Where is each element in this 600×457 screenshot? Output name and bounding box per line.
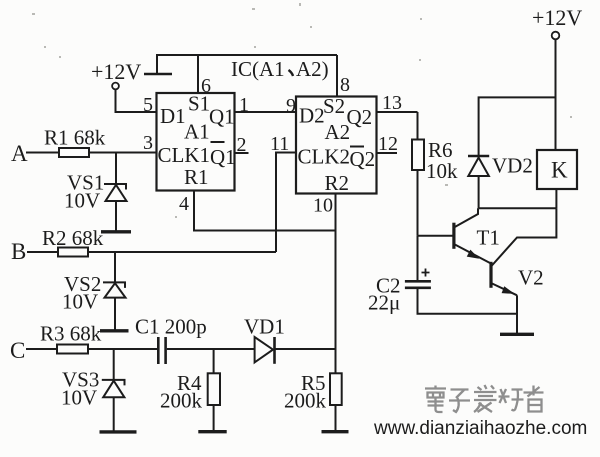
wire VD1 to R5/pin10 node: [276, 348, 336, 350]
+12V supply terminal (right): [532, 5, 582, 150]
input B: [11, 239, 58, 264]
wire A2 Q2 pin13 to R6: [377, 92, 418, 114]
svg-text:10: 10: [313, 195, 333, 217]
node wire VD2/T1 collector/K bottom: [479, 207, 557, 209]
svg-text:8: 8: [340, 74, 350, 96]
wire B node to A2 pin 11 (CLK2): [270, 133, 296, 252]
svg-text:5: 5: [143, 94, 153, 116]
zener diode VS3 10V: [61, 349, 125, 432]
svg-text:10V: 10V: [61, 386, 97, 410]
svg-text:A2: A2: [325, 120, 351, 144]
svg-text:R1: R1: [184, 165, 209, 189]
zener diode VS2 10V: [62, 252, 126, 331]
wire +12V to VD2 cathode: [479, 97, 556, 156]
svg-text:12: 12: [378, 133, 398, 155]
IC label IC(A1,A2): [231, 57, 329, 81]
svg-text:2: 2: [237, 134, 247, 156]
input A: [11, 141, 59, 166]
svg-text:200k: 200k: [284, 389, 327, 413]
A2 pin 8 (S2) wire: [337, 55, 350, 97]
wire C1 to VD1: [167, 348, 255, 350]
wire A1 pin 4 (R1) to A2 pin 10 node: [179, 191, 336, 231]
wire A1 Q1 pin1 to A2 D2 pin9: [235, 94, 297, 117]
svg-text:9: 9: [286, 95, 296, 117]
svg-text:A1: A1: [184, 120, 210, 144]
svg-text:A2): A2): [296, 57, 329, 81]
wire +12V terminal to A1 pin 5 (D1): [116, 90, 157, 113]
svg-text:C: C: [10, 338, 25, 363]
ground under R5: [322, 430, 349, 433]
capacitor C2 22u electrolytic: [368, 236, 431, 315]
svg-text:4: 4: [179, 193, 189, 215]
svg-text:IC(A1: IC(A1: [231, 57, 285, 81]
svg-text:22μ: 22μ: [368, 291, 400, 315]
svg-text:D2: D2: [299, 104, 325, 128]
zener diode VS1 10V: [64, 153, 127, 232]
relay K: [537, 150, 577, 208]
transistor T1: [418, 208, 500, 263]
svg-text:R1 68k: R1 68k: [44, 126, 106, 150]
resistor R2 68k: [42, 226, 104, 257]
ground under VS2: [100, 329, 129, 332]
svg-text:10V: 10V: [64, 189, 100, 213]
svg-text:Q2: Q2: [350, 147, 376, 171]
svg-text:Q1: Q1: [210, 145, 236, 169]
svg-text:VD1: VD1: [244, 315, 285, 339]
svg-text:3: 3: [143, 132, 153, 154]
flip-flop A2: [296, 94, 377, 195]
svg-text:+12V: +12V: [91, 59, 141, 84]
svg-text:D1: D1: [160, 104, 186, 128]
svg-text:R2: R2: [325, 171, 350, 195]
ground under VS1: [101, 230, 131, 233]
input C: [10, 338, 57, 363]
ground under R4: [198, 430, 226, 433]
svg-text:www.dianziaihaozhe.com: www.dianziaihaozhe.com: [373, 418, 587, 439]
transistor V2: [491, 208, 556, 295]
A1 pin 2 stub (Q1 bar out): [235, 134, 249, 156]
wire +12V bar to S1/S2 top rail: [157, 55, 337, 74]
diode VD2: [468, 154, 533, 209]
wire R1 to A1 pin 3 (CLK1): [89, 152, 157, 154]
svg-text:1: 1: [239, 94, 249, 116]
wire R3 to C1: [88, 348, 158, 350]
svg-text:B: B: [11, 239, 26, 264]
svg-text:11: 11: [270, 133, 289, 155]
watermark chinese characters: [425, 385, 544, 412]
svg-text:R2 68k: R2 68k: [42, 226, 104, 250]
svg-text:VD2: VD2: [492, 154, 533, 178]
svg-text:R3 68k: R3 68k: [40, 322, 102, 346]
svg-text:10k: 10k: [426, 159, 458, 183]
resistor R4 200k: [160, 349, 220, 431]
scan speckles: [32, 3, 572, 218]
svg-text:200k: 200k: [160, 389, 203, 413]
svg-text:CLK1: CLK1: [158, 143, 211, 167]
svg-text:13: 13: [382, 92, 402, 114]
svg-text:A: A: [11, 141, 28, 166]
flip-flop A1: [157, 92, 236, 191]
ground under V2 emitter: [500, 333, 534, 336]
svg-text:C1 200p: C1 200p: [135, 315, 207, 339]
svg-text:10V: 10V: [62, 290, 98, 314]
ground under VS3: [100, 430, 137, 433]
svg-text:Q1: Q1: [209, 105, 235, 129]
wire A2 pin 10 (R2) down to VD1/R5 node: [313, 194, 336, 374]
resistor R1 68k: [44, 126, 106, 158]
svg-text:K: K: [551, 158, 568, 183]
svg-text:T1: T1: [477, 226, 500, 250]
resistor R5 200k: [284, 371, 342, 431]
+12V supply terminal (left): [91, 59, 172, 89]
svg-text:6: 6: [201, 75, 211, 97]
A1 pin 6 (S1) wire: [198, 55, 211, 97]
svg-text:+12V: +12V: [532, 5, 582, 30]
resistor R3 68k: [40, 322, 102, 354]
wire R2 to pin11 riser: [88, 251, 276, 253]
A2 pin 12 stub (Q2 bar out): [377, 133, 399, 155]
svg-text:S2: S2: [323, 94, 345, 118]
wire emitter bottom rail: [418, 288, 518, 334]
resistor R6 10k: [412, 112, 458, 236]
svg-text:Q2: Q2: [347, 105, 373, 129]
diode VD1: [244, 315, 285, 364]
svg-text:V2: V2: [518, 266, 544, 290]
svg-text:CLK2: CLK2: [298, 145, 351, 169]
capacitor C1 200p: [135, 315, 207, 365]
